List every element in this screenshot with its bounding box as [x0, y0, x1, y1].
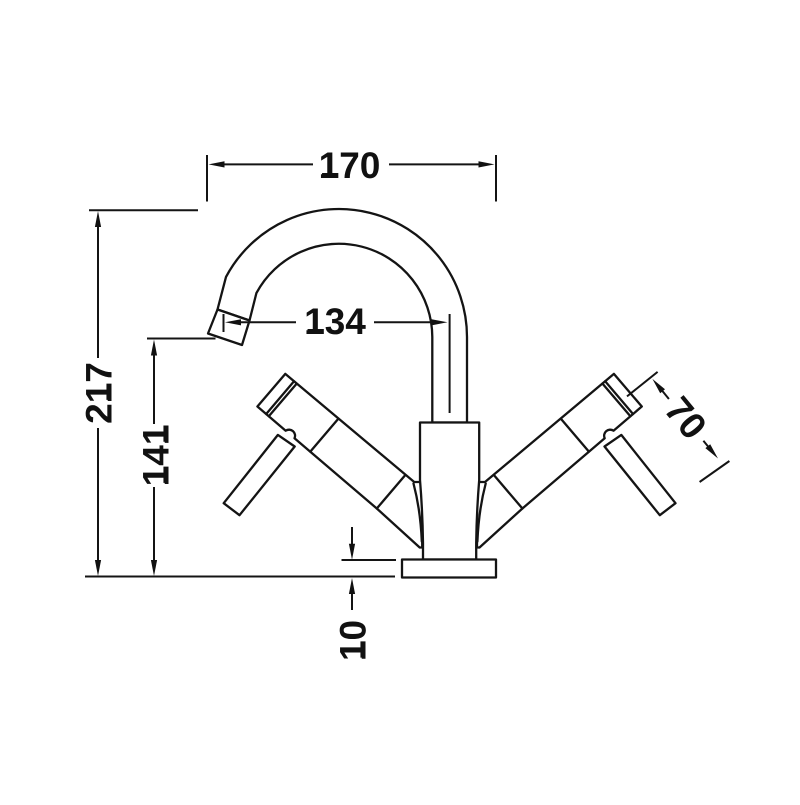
flange top reference line [342, 559, 397, 561]
body-handle fillet left [414, 484, 422, 542]
baseline [85, 576, 395, 578]
handle section line [495, 476, 523, 509]
dim 10 lower line [351, 589, 353, 610]
dim 170 text [321, 152, 379, 178]
handle ring line 2 [266, 381, 294, 414]
handle lever right [605, 435, 676, 515]
handle left [257, 374, 422, 548]
handle lever left [224, 435, 295, 515]
dim 170 extension tick left [206, 155, 208, 202]
dim 134 line [237, 321, 296, 323]
spout aerator tip [208, 310, 250, 346]
handle right [477, 374, 642, 548]
handle ring line 2 [605, 381, 633, 414]
spout gooseneck tube [218, 209, 468, 422]
dim 217 line [97, 225, 99, 358]
dim 141 line [153, 352, 155, 424]
tap body [420, 423, 479, 560]
handle head section line [561, 419, 589, 452]
handle ring line 1 [269, 384, 297, 417]
handle section line [377, 476, 405, 509]
dim 134 text [306, 308, 365, 334]
dim 70 extension line top [627, 372, 658, 397]
dim 134 tick at spout tip [223, 314, 225, 332]
dim 70 line [661, 389, 669, 399]
body-handle fillet right [477, 484, 485, 542]
handle ring line 1 [603, 384, 631, 417]
dim 217 text [86, 364, 112, 423]
dim 70 text [664, 395, 708, 441]
dim 141 top extension line [147, 338, 216, 340]
dim 134 centreline extension [449, 314, 451, 413]
dim 170 line [221, 163, 313, 165]
dim 70 extension line bottom [700, 461, 730, 482]
handle head section line [310, 419, 338, 452]
base flange [402, 560, 496, 578]
dim 170 extension tick right [495, 155, 497, 202]
dim 10 upper line [351, 527, 353, 548]
dim 141 text [143, 426, 168, 485]
dim 217 top extension line [89, 209, 198, 211]
dim 10 text [340, 621, 366, 658]
